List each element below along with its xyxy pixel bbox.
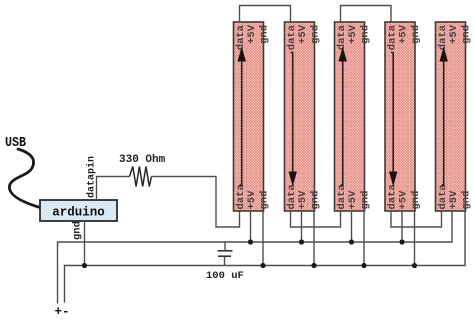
svg-text:gnd: gnd [360, 25, 372, 44]
strip S4 data-flow arrow (down) [389, 53, 397, 187]
+5V bus wire with + terminal [58, 211, 453, 304]
wire strip4 data to strip5 data [391, 211, 442, 227]
svg-text:gnd: gnd [360, 191, 372, 210]
svg-text:100 uF: 100 uF [206, 270, 244, 282]
svg-text:USB: USB [5, 136, 26, 151]
svg-text:gnd: gnd [310, 191, 322, 210]
svg-text:arduino: arduino [52, 206, 105, 220]
led strip S3 [335, 22, 365, 211]
wire strip1 gnd to bus [262, 211, 264, 266]
wire strip3 gnd to bus [363, 211, 365, 266]
svg-text:+5V: +5V [347, 24, 359, 44]
led strip S5 [436, 22, 466, 211]
svg-text:+5V: +5V [347, 190, 359, 210]
wire strip2 data to strip3 data [291, 211, 341, 227]
svg-text:+5V: +5V [297, 24, 309, 44]
svg-text:+5V: +5V [398, 24, 410, 44]
junction dot strip1 gnd [260, 263, 265, 268]
wire strip4 gnd to bus [414, 211, 416, 266]
wire strip2 +5V to bus [301, 211, 303, 242]
junction dot strip3 +5V [349, 239, 354, 244]
strip S1 data-flow arrow (up) [238, 47, 246, 186]
wire strip4 +5V to bus [401, 211, 403, 242]
gnd bus wire with - terminal [65, 211, 466, 303]
strip S3 data-flow arrow (up) [339, 47, 347, 186]
svg-text:gnd: gnd [259, 191, 271, 210]
svg-text:+5V: +5V [246, 190, 258, 210]
junction dot strip3 gnd [361, 263, 366, 268]
svg-text:gnd: gnd [410, 25, 422, 44]
svg-text:gnd: gnd [72, 221, 84, 240]
svg-text:330 Ohm: 330 Ohm [119, 154, 166, 166]
junction dot strip4 gnd [412, 263, 417, 268]
svg-text:gnd: gnd [259, 25, 271, 44]
led strip S4 [385, 22, 415, 211]
svg-text:+5V: +5V [398, 190, 410, 210]
svg-text:gnd: gnd [310, 25, 322, 44]
led strip S2 [285, 22, 315, 211]
junction dot arduino gnd [82, 263, 87, 268]
wire arduino gnd down to gnd bus [84, 221, 86, 266]
svg-text:gnd: gnd [410, 191, 422, 210]
junction dot strip2 gnd [311, 263, 316, 268]
USB cable wire [9, 149, 40, 208]
svg-text:gnd: gnd [461, 191, 473, 210]
strip S2 data-flow arrow (down) [289, 53, 297, 187]
wire resistor to strip1 data [152, 177, 240, 228]
wire bridge strip1 data top to strip2 data top [240, 6, 291, 23]
arduino U1 [40, 200, 117, 221]
strip S5 data-flow arrow (up) [440, 47, 448, 186]
svg-text:+5V: +5V [448, 24, 460, 44]
svg-text:+5V: +5V [448, 190, 460, 210]
svg-text:+5V: +5V [297, 190, 309, 210]
junction dot strip1 +5V [248, 239, 253, 244]
svg-text:gnd: gnd [461, 25, 473, 44]
junction dot strip2 +5V [299, 239, 304, 244]
resistor R1 330 Ohm [130, 167, 152, 187]
wire strip3 +5V to bus [351, 211, 353, 242]
wire arduino datapin to resistor [97, 177, 130, 201]
junction dot strip4 +5V [399, 239, 404, 244]
wire strip1 +5V to bus [250, 211, 252, 242]
wire bridge strip3 data top to strip4 data top [341, 6, 392, 23]
wire strip2 gnd to bus [313, 211, 315, 266]
svg-text:datapin: datapin [86, 156, 98, 198]
svg-text:+5V: +5V [246, 24, 258, 44]
svg-text:+-: +- [55, 305, 70, 319]
capacitor C1 100 uF [218, 242, 233, 266]
led strip S1 [234, 22, 264, 211]
